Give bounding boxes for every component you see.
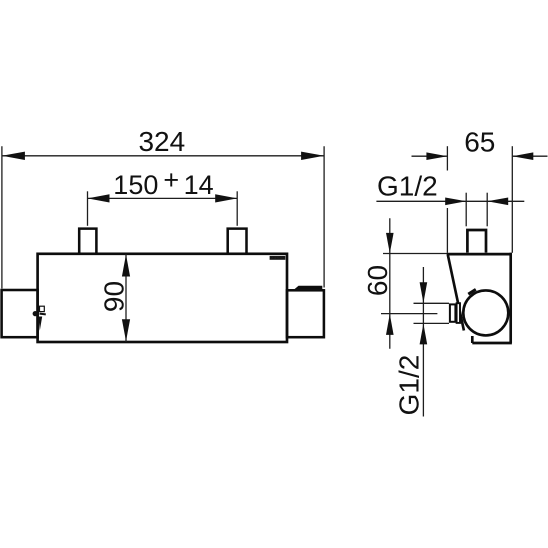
arrow bottom of 90 dim: [122, 319, 130, 341]
outlet nipple (side view): [450, 304, 456, 321]
safety button wedge: [38, 317, 42, 331]
left knob (front view): [2, 290, 38, 337]
safety button square: [40, 306, 45, 311]
arrow right of 65 dim: [512, 152, 533, 160]
extension line right of 150+14 dim: [236, 191, 238, 226]
arrow left of 150+14 dim: [88, 194, 110, 202]
svg-text:324: 324: [138, 126, 185, 157]
body front slant (side view): [448, 255, 464, 330]
arrow left of G1/2 stub: [445, 198, 466, 206]
body right edge (side view): [509, 253, 512, 343]
KEUCO logo plate: [270, 256, 286, 260]
dimension line 90 (vertical, inside body): [125, 254, 127, 342]
extension line outlet top: [414, 302, 450, 304]
svg-text:G1/2: G1/2: [394, 355, 425, 416]
knob tick (side view): [468, 289, 476, 294]
dimension line 65 left tail: [412, 155, 448, 157]
dimension line 65 right tail: [512, 155, 547, 157]
inlet stub right (front view): [228, 229, 247, 253]
safety button dot: [33, 311, 38, 316]
arrow left of 324 dim: [2, 152, 25, 160]
extension line left of G1/2 stub: [465, 193, 467, 227]
svg-text:KEUCO: KEUCO: [270, 255, 284, 260]
leader line G1/2 top: [376, 200, 524, 202]
dimension line 150+14: [88, 197, 238, 199]
svg-text:G1/2: G1/2: [377, 171, 438, 202]
arrow top of 60 dim: [386, 233, 394, 253]
inlet stub (side view): [467, 230, 486, 253]
arrow up to outlet bottom: [420, 324, 428, 345]
outlet flange (side view): [457, 303, 460, 323]
safety button dash: [40, 313, 46, 316]
extension line outlet centre: [381, 313, 437, 315]
right knob grip lip: [295, 286, 323, 289]
inlet stub left (front view): [79, 229, 96, 253]
extension line top face (60 dim): [383, 253, 447, 255]
arrow bottom of 60 dim: [386, 314, 394, 335]
dimension line 324: [2, 155, 324, 157]
arrow right of 324 dim: [301, 152, 324, 160]
extension line right of G1/2 stub: [486, 193, 488, 227]
arrow top of 90 dim: [122, 255, 130, 277]
svg-text:60: 60: [362, 265, 393, 296]
extension line right of 324 dim: [323, 146, 325, 287]
extension line left of 324 dim: [1, 146, 3, 288]
leader line G1/2 bottom (vertical): [422, 267, 424, 417]
svg-text:90: 90: [99, 281, 130, 312]
arrow left of 65 dim: [426, 152, 447, 160]
arrow down to outlet top: [420, 282, 428, 303]
body bottom-left edge (side view): [471, 336, 474, 343]
extension line left of 65 dim (upper segment): [446, 146, 448, 170]
body bottom edge (side view): [472, 342, 512, 345]
knob circle (side view): [463, 290, 508, 335]
body top face (side view): [447, 253, 512, 256]
svg-text:65: 65: [464, 126, 495, 157]
main body (front view): [38, 254, 287, 342]
arrow right of 150+14 dim: [215, 194, 237, 202]
dimension line 60 (vertical): [389, 218, 391, 349]
extension line outlet bottom: [414, 322, 450, 324]
extension line left of 65 dim (lower segment): [446, 208, 448, 253]
extension line left of 150+14 dim: [87, 191, 89, 226]
extension line right of 65 dim (wall plane): [511, 146, 513, 253]
svg-text:150+14: 150+14: [113, 165, 213, 200]
right knob (front view): [287, 290, 324, 337]
arrow right of G1/2 stub: [487, 198, 508, 206]
